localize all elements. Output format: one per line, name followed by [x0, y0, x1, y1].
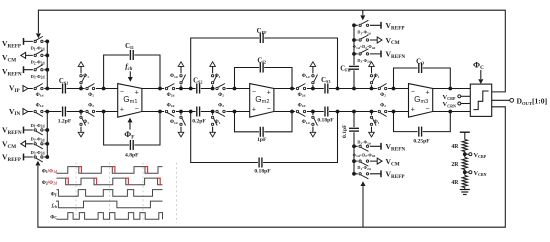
svg-text:0.1pF: 0.1pF — [342, 124, 348, 138]
label Phi_C with arrow into quantizer — [473, 60, 484, 85]
wire bottom rail Gm2 out to Gm3 — [274, 111, 408, 113]
wire top-right DAC row V_REFP — [354, 24, 381, 26]
svg-text:+: + — [252, 106, 256, 113]
timing diagram gridlines — [76, 163, 177, 224]
svg-text:Φ2d: Φ2d — [298, 103, 306, 108]
svg-text:Φ1: Φ1 — [374, 74, 380, 79]
waveform phi1/phi1d trace — [57, 167, 163, 174]
svg-text:0.18pF: 0.18pF — [317, 118, 334, 124]
svg-text:4R: 4R — [451, 180, 459, 186]
switch phi1 stage2 (top) with terminal — [210, 62, 221, 91]
resistor 2R (middle) — [451, 158, 467, 170]
svg-text:Φ2d: Φ2d — [167, 93, 175, 98]
wire top rail Gm2 out to Gm3 — [274, 88, 408, 90]
svg-text:Φ2: Φ2 — [380, 103, 386, 108]
switch phi2 stage3 (top) — [377, 84, 388, 98]
wire top-right DAC row V_REFN — [354, 53, 381, 55]
op-amp Gm3 — [409, 84, 433, 118]
svg-text:D3·Φ2d: D3·Φ2d — [31, 150, 45, 156]
svg-text:Φ2: Φ2 — [218, 103, 224, 108]
capacitor 0.25pF integration — [413, 127, 430, 145]
terminal V_CM top-right — [377, 36, 400, 46]
svg-text:−: − — [426, 106, 430, 113]
wire bottom-left DAC bus — [45, 110, 49, 159]
terminal V_REFP bottom-right — [381, 170, 405, 180]
waveform phi_C trace — [57, 213, 163, 220]
switch D1*phi2d to V_REFP (top-left DAC) — [31, 36, 45, 51]
capacitor 0.1pF reference DAC — [342, 124, 359, 138]
capacitor 4.8pF integration — [125, 140, 139, 159]
svg-text:Φ1: Φ1 — [215, 74, 221, 79]
switch D3*phi2d to V_REFN (bottom-right DAC) — [357, 140, 370, 152]
wire ladder to V_CRP tap — [463, 152, 467, 158]
switch phi2 stage1 (top) — [85, 84, 96, 98]
wire bottom-left DAC row V_REFP — [24, 156, 47, 158]
svg-text:Φ2d: Φ2d — [298, 93, 306, 98]
svg-text:0.2pF: 0.2pF — [192, 119, 206, 125]
svg-text:ΦC: ΦC — [50, 215, 57, 220]
svg-text:+: + — [267, 89, 271, 96]
svg-text:4.8pF: 4.8pF — [125, 153, 139, 159]
switch phi2 stage2 (bottom) — [215, 103, 227, 116]
terminal V_REFN bottom-left — [2, 126, 24, 136]
resistor 4R (top) — [451, 140, 467, 152]
capacitor CI2 integration — [257, 58, 266, 73]
ground symbol ladder — [460, 188, 470, 195]
switch D2*phi2d to V_CM (bottom-left DAC) — [31, 137, 45, 149]
svg-text:−: − — [135, 106, 139, 113]
svg-text:Φ1: Φ1 — [83, 74, 89, 79]
capacitor 0.18pF feed-forward — [254, 158, 271, 175]
terminal V_REFN bottom-right — [381, 142, 405, 152]
capacitor CS3 bottom sampling 0.18pF — [317, 107, 334, 124]
capacitor CFB reference DAC — [340, 65, 359, 73]
svg-text:Φ2/Φ2d: Φ2/Φ2d — [42, 181, 57, 186]
wire top-left DAC row V_REFP — [24, 40, 47, 42]
resistor 4R (bottom) — [451, 176, 467, 188]
wire bottom-right DAC row V_CM — [354, 160, 381, 162]
svg-text:Φ1d: Φ1d — [36, 93, 44, 98]
terminal V_IN input — [9, 107, 28, 117]
wire bottom-left DAC row V_REFN — [24, 129, 47, 131]
waveform phi_F trace — [57, 190, 163, 197]
switch phi1 stage3 (top) with terminal — [369, 62, 380, 91]
wire CFF feed-forward net — [189, 38, 340, 90]
svg-text:Φ2: Φ2 — [380, 93, 386, 98]
terminal V_CM top-left — [2, 52, 26, 63]
terminal V_REFN top-right — [381, 50, 405, 60]
wire bottom rail Gm3 out to quantizer — [433, 111, 471, 113]
wire bottom rail Vin to Gm1 — [27, 111, 117, 113]
terminal V_REFP top-right — [381, 21, 405, 31]
switch phi2d stage3 sampling (top) — [295, 84, 307, 98]
svg-text:D3·Φ2d: D3·Φ2d — [357, 58, 370, 64]
wire top-left DAC row V_CM — [24, 54, 47, 56]
svg-text:D2·Φ2d: D2·Φ2d — [31, 137, 45, 143]
switch D1*phi2d to V_REFN (bottom-left DAC) — [31, 123, 45, 135]
capacitor CO integration — [416, 59, 425, 74]
capacitor CFF feed-forward — [257, 28, 267, 43]
switch D1*phi2d to V_REFP (top-right DAC) — [357, 20, 370, 35]
svg-text:Φ2d: Φ2d — [167, 103, 175, 108]
svg-text:D1·Φ2d: D1·Φ2d — [357, 165, 370, 171]
label phi_C — [50, 215, 57, 220]
svg-text:Φ2: Φ2 — [88, 93, 94, 98]
svg-text:D1·Φ2d: D1·Φ2d — [357, 30, 370, 36]
switch D3*phi2d to V_REFP (bottom-left DAC) — [31, 150, 45, 162]
svg-text:Φ1d: Φ1d — [170, 74, 178, 79]
capacitor CI1 integration — [125, 43, 134, 60]
wire top-left DAC row V_REFN — [24, 69, 47, 71]
wire feedback riser to bottom-right DAC — [361, 181, 366, 227]
svg-text:4R: 4R — [451, 144, 459, 150]
terminal V_REFP top-left — [2, 38, 24, 49]
switch phi1 stage3 (bottom) with terminal — [369, 110, 380, 137]
wire bottom-left DAC row V_CM — [24, 143, 47, 145]
wire bottom-right DAC row V_REFN — [354, 145, 381, 147]
terminal V_CRP quantizer reference input — [443, 94, 471, 101]
op-amp Gm2 — [250, 84, 274, 118]
switch D1*phi2d to V_REFP (bottom-right DAC) — [357, 165, 370, 179]
svg-text:Φ1d: Φ1d — [170, 120, 178, 125]
capacitor CS2 bottom sampling 0.2pF — [192, 107, 206, 125]
svg-text:+: + — [135, 89, 139, 96]
wire 0.25pF feedback loop — [392, 110, 453, 132]
svg-text:−: − — [267, 106, 271, 113]
switch phi1d+D2*phi2d to V_CM (bottom-right DAC) — [353, 152, 376, 166]
svg-text:Φ1/Φ1d: Φ1/Φ1d — [42, 169, 57, 174]
svg-text:D1·Φ2d: D1·Φ2d — [31, 123, 45, 129]
terminal V_CRN ladder tap — [465, 170, 487, 177]
svg-text:Φ1: Φ1 — [374, 120, 380, 125]
svg-text:Φ1: Φ1 — [215, 120, 221, 125]
waveform phi2/phi2d trace — [57, 178, 163, 185]
svg-text:Φ1d: Φ1d — [302, 74, 310, 79]
comparator quantizer block — [470, 84, 491, 116]
svg-text:ΦF: ΦF — [51, 193, 58, 198]
waveform f_ch trace — [56, 201, 163, 208]
label f_ch — [52, 203, 57, 209]
svg-text:2R: 2R — [451, 162, 459, 168]
wire bottom rail Gm1 out to Gm2 — [142, 111, 250, 113]
capacitor 1pF integration — [257, 127, 267, 143]
terminal V_CM bottom-left — [2, 139, 26, 149]
svg-text:+: + — [426, 89, 430, 96]
capacitor CS2 top sampling — [193, 77, 202, 93]
wire 0.18pF feed-forward net — [189, 110, 340, 163]
wire 1pF feedback loop — [233, 110, 294, 132]
switch phi1 reset stage1 (top) with terminal — [78, 62, 89, 91]
switch phi2 stage1 (bottom) — [85, 103, 96, 116]
svg-text:Φ2: Φ2 — [88, 103, 94, 108]
svg-text:Φ1d: Φ1d — [36, 103, 44, 108]
switch phi1 reset stage1 (bottom) with terminal — [78, 110, 89, 137]
svg-text:+: + — [411, 106, 415, 113]
terminal V_IP input — [9, 84, 28, 94]
terminal V_REFN top-left — [2, 66, 24, 77]
wire bottom-right DAC bus with 0.1pF riser — [352, 110, 356, 176]
svg-text:Φ1d: Φ1d — [302, 120, 310, 125]
terminal V_REFP bottom-left — [2, 153, 24, 163]
wire top-left DAC bus — [45, 40, 49, 91]
switch phi1d stage2 (bottom) with terminal — [170, 110, 186, 137]
wire top rail Gm1 out to Gm2 — [142, 88, 250, 90]
wire top feedback net from quantizer to left DAC — [36, 10, 505, 92]
svg-text:Φ1d+D2·Φ2d: Φ1d+D2·Φ2d — [353, 152, 376, 158]
svg-text:fch: fch — [52, 203, 57, 209]
svg-text:+: + — [120, 106, 124, 113]
svg-text:Φ2: Φ2 — [218, 93, 224, 98]
wire top-right DAC row V_CM — [354, 39, 381, 41]
label Phi_F with arrow into Gm1 — [124, 118, 134, 141]
label f_ch chopping clock with arrow into Gm1 — [125, 62, 133, 82]
wire resistor ladder top bar — [460, 132, 470, 139]
wire 4.8pF feedback loop — [102, 110, 162, 145]
op-amp Gm1 — [118, 84, 142, 118]
wire CI1 feedback loop — [102, 55, 162, 90]
svg-text:Φ1d+D2·Φ2d: Φ1d+D2·Φ2d — [353, 44, 376, 50]
switch D3*phi2d to V_REFN (top-left DAC) — [31, 65, 45, 80]
wire bottom feedback net from quantizer to left DAC — [35, 107, 505, 227]
terminal D_OUT[1:0] output — [492, 97, 547, 106]
svg-text:1.2pF: 1.2pF — [58, 119, 72, 125]
label phi_F — [51, 193, 58, 198]
svg-text:D3·Φ2d: D3·Φ2d — [31, 74, 45, 80]
switch phi2 stage3 (bottom) — [377, 103, 388, 116]
switch phi2 stage2 (top) — [215, 84, 227, 98]
switch phi2d stage2 sampling (top) — [164, 84, 176, 98]
wire top rail Vip to Gm1 — [27, 88, 117, 90]
switch D2*phi2d to V_CM (top-left DAC) — [31, 50, 45, 65]
wire CI2 feedback loop — [233, 68, 294, 91]
terminal V_CRN quantizer reference input — [443, 101, 471, 108]
svg-text:1pF: 1pF — [257, 137, 267, 143]
switch phi1d input sampling (top) — [33, 84, 45, 98]
switch phi2d stage2 sampling (bottom) — [164, 103, 176, 116]
label phi2/phi2d — [42, 181, 57, 186]
capacitor CS1 bottom sampling 1.2pF — [58, 107, 72, 125]
capacitor CS1 top sampling — [59, 78, 68, 93]
switch phi1d+D2*phi2d to V_CM (top-right DAC) — [353, 35, 376, 50]
wire feedback drop to top-right DAC — [360, 10, 365, 20]
svg-text:Φ1: Φ1 — [83, 120, 89, 125]
wire CO feedback loop — [392, 68, 453, 90]
switch phi1d stage3 (top) with terminal — [302, 62, 318, 91]
svg-text:0.25pF: 0.25pF — [413, 139, 430, 145]
svg-text:DOUT[1:0]: DOUT[1:0] — [517, 97, 548, 106]
wire bottom-right DAC row V_REFP — [354, 173, 381, 175]
switch D3*phi2d to V_REFN (top-right DAC) — [357, 49, 370, 64]
switch phi1d stage2 (top) with terminal — [170, 62, 186, 91]
terminal V_CM bottom-right — [377, 157, 400, 167]
capacitor CS3 top sampling — [321, 77, 330, 94]
switch phi1 stage2 (bottom) with terminal — [210, 110, 221, 137]
terminal V_CRP ladder tap — [465, 152, 487, 159]
switch phi1d stage3 (bottom) with terminal — [302, 110, 318, 137]
wire top rail Gm3 out to quantizer — [433, 88, 471, 90]
wire top-right DAC bus with CFB drop — [352, 23, 356, 90]
switch phi2d stage3 sampling (bottom) — [295, 103, 307, 116]
svg-text:D3·Φ2d: D3·Φ2d — [357, 140, 370, 146]
switch phi1d input sampling (bottom) — [33, 103, 45, 116]
wire ladder to V_CRN tap — [463, 170, 467, 176]
svg-text:0.18pF: 0.18pF — [254, 169, 271, 175]
label phi1/phi1d — [42, 169, 57, 174]
